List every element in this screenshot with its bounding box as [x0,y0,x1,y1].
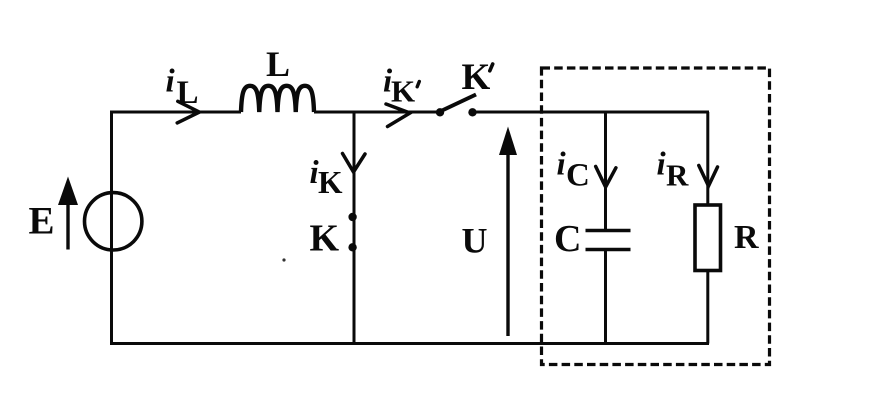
svg-text:K: K [310,218,340,260]
svg-text:R: R [666,158,689,193]
svg-text:L: L [266,44,290,84]
svg-text:U: U [462,221,488,261]
svg-text:K: K [462,57,491,98]
svg-text:R: R [734,219,759,256]
svg-text:i: i [557,147,567,183]
svg-text:i: i [657,147,667,183]
svg-text:E: E [29,200,55,243]
svg-text:K: K [318,165,343,200]
svg-text:C: C [554,218,581,260]
svg-text:L: L [177,75,199,111]
svg-text:K: K [391,73,415,108]
svg-text:C: C [566,158,590,194]
svg-text:i: i [166,64,176,100]
